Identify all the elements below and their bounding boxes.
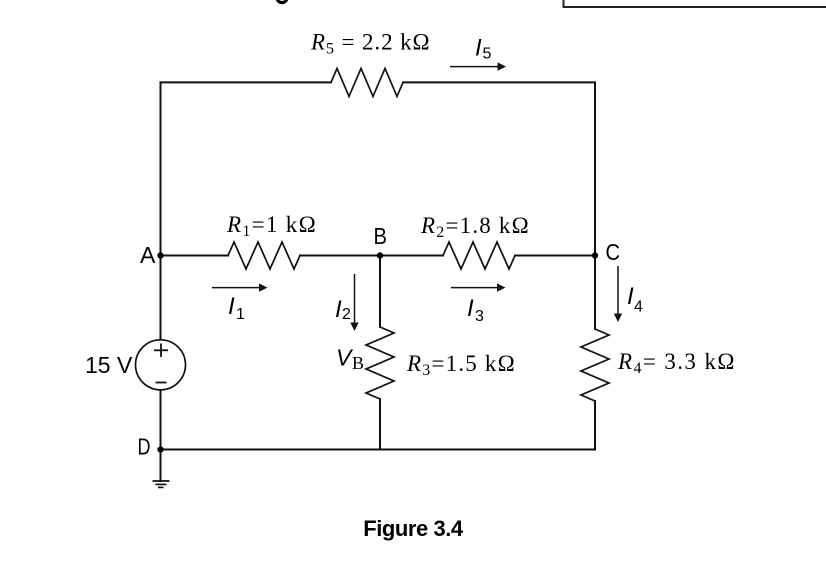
partial box frame top right (564, 0, 826, 7)
svg-text:I: I (335, 296, 342, 323)
voltage source minus sign (156, 382, 167, 384)
wire top: R5 to top-right corner (403, 81, 595, 83)
svg-text:A: A (140, 242, 156, 268)
svg-text:Figure 3.4: Figure 3.4 (363, 516, 464, 541)
wire middle: node B to R2 (380, 255, 443, 257)
wire middle: R2 to node C (515, 255, 595, 257)
ground symbol (153, 481, 170, 487)
svg-text:D: D (138, 434, 151, 460)
wire left rail: source bottom down to node D (160, 390, 162, 450)
svg-text:C: C (606, 239, 621, 265)
wire branch: R3 bottom down to bottom wire (379, 399, 381, 450)
svg-text:R1=1 kΩ: R1=1 kΩ (226, 212, 317, 240)
svg-text:1: 1 (236, 306, 245, 323)
arrow I3 current (451, 283, 506, 291)
wire ground stem below node D (160, 450, 162, 482)
partial heading glyph g (clipped at top edge) (277, 0, 286, 3)
resistor R1 zigzag (228, 242, 300, 269)
resistor R5 zigzag (331, 68, 403, 96)
svg-text:5: 5 (483, 46, 492, 63)
node C junction dot (592, 252, 598, 258)
svg-text:3: 3 (475, 308, 484, 325)
svg-text:I: I (627, 283, 634, 310)
wire middle: node A to R1 (161, 255, 229, 257)
wire right rail: node C down to R4 (594, 256, 596, 330)
svg-text:B: B (352, 353, 364, 373)
svg-text:2: 2 (342, 306, 351, 323)
voltage source V1 circle (136, 340, 186, 390)
resistor R4 zigzag vertical (581, 329, 609, 401)
svg-text:4: 4 (634, 299, 643, 316)
resistor R3 zigzag vertical (366, 327, 394, 399)
wire right rail: R4 bottom down to bottom wire (594, 401, 596, 450)
resistor R2 zigzag (443, 242, 515, 269)
svg-text:B: B (374, 223, 388, 249)
arrow I4 current (down) (614, 266, 622, 322)
arrow I5 current (450, 62, 506, 70)
wire middle: R1 to node B (300, 255, 380, 257)
node D junction dot (157, 446, 163, 452)
wire bottom: node D to R4 branch (161, 449, 596, 451)
svg-text:I: I (228, 293, 235, 320)
svg-text:I: I (467, 295, 474, 322)
wire branch: node B down to R3 (379, 256, 381, 328)
node B junction dot (377, 252, 383, 258)
voltage source plus sign (154, 344, 168, 358)
arrow I1 current (212, 283, 268, 291)
wire top-left: left rail from top corner down to node A (160, 82, 162, 255)
wire top: left corner to R5 (161, 81, 332, 83)
svg-text:15 V: 15 V (85, 352, 133, 378)
arrow I2 current (down) (350, 274, 358, 331)
wire left rail: node A down to source top (160, 256, 162, 340)
svg-text:I: I (475, 35, 482, 62)
node A junction dot (157, 252, 163, 258)
wire right rail: top corner down to node C (594, 82, 596, 255)
